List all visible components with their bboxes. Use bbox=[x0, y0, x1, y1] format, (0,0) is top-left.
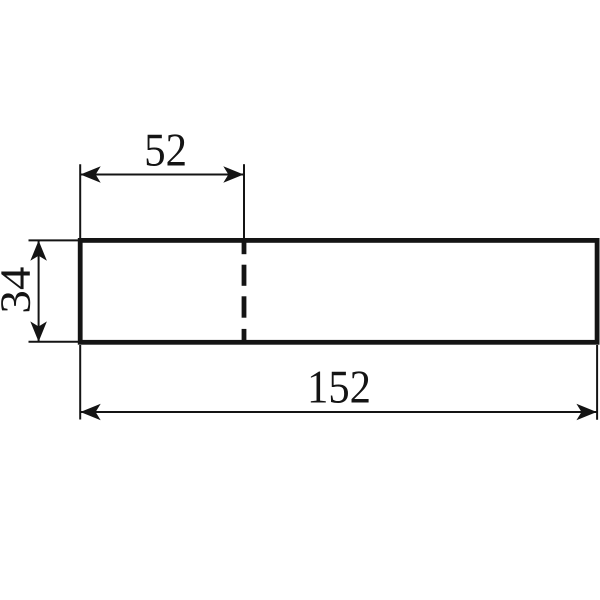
arrowhead 34 up bbox=[30, 241, 47, 261]
arrowhead 152 left bbox=[80, 404, 100, 421]
extension line bottom (dim 34) bbox=[29, 341, 79, 343]
arrowhead 52 right bbox=[223, 166, 243, 183]
dimension line 34 bbox=[38, 241, 40, 342]
dimension text 34 (rotated) bbox=[1, 267, 30, 311]
dimension text 52 bbox=[147, 134, 185, 166]
dashed feature line at 52 bbox=[242, 242, 247, 340]
extension line right (dim 52) bbox=[243, 164, 245, 240]
extension line left (dim 52) bbox=[79, 164, 81, 240]
dimension text 152 bbox=[311, 371, 369, 403]
extension line left (dim 152) bbox=[79, 345, 81, 420]
dimension line 152 bbox=[80, 411, 596, 413]
arrowhead 152 right bbox=[576, 404, 596, 421]
extension line right (dim 152) bbox=[596, 345, 598, 420]
dimension line 52 bbox=[80, 174, 243, 176]
part outline: rectangular plate bbox=[80, 240, 597, 342]
extension line top (dim 34) bbox=[29, 239, 79, 241]
arrowhead 34 down bbox=[30, 321, 47, 341]
arrowhead 52 left bbox=[80, 166, 100, 183]
